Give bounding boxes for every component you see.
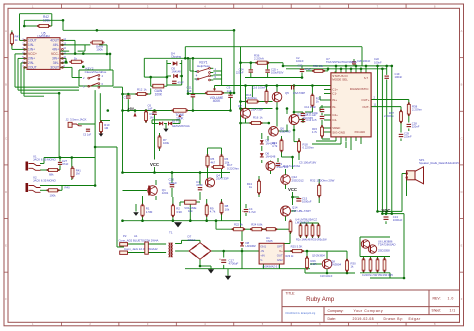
svg-text:IN-: IN- <box>332 105 336 109</box>
svg-text:100nF: 100nF <box>374 60 382 64</box>
svg-text:220nF: 220nF <box>236 71 244 75</box>
svg-text:VCC: VCC <box>381 208 390 213</box>
svg-text:C: C <box>461 136 463 140</box>
svg-text:MODE SEL: MODE SEL <box>332 77 348 81</box>
svg-text:R40: R40 <box>65 185 71 189</box>
svg-text:47uF: 47uF <box>196 183 203 187</box>
svg-text:C23: C23 <box>298 64 303 68</box>
svg-text:J2: J2 <box>66 117 69 121</box>
svg-text:1M: 1M <box>104 126 109 130</box>
svg-text:2W10: 2W10 <box>188 238 196 242</box>
svg-text:A1: A1 <box>134 234 138 238</box>
svg-text:C7: C7 <box>124 96 128 100</box>
svg-text:C16 100nF: C16 100nF <box>252 85 266 89</box>
svg-text:100k: 100k <box>96 48 103 52</box>
svg-text:VCC+: VCC+ <box>28 52 37 56</box>
svg-text:10k: 10k <box>225 207 230 211</box>
svg-text:220nF: 220nF <box>404 135 412 139</box>
svg-text:68k: 68k <box>49 172 54 176</box>
svg-text:-IN: -IN <box>260 249 264 253</box>
svg-text:2.2Ohm: 2.2Ohm <box>384 114 395 118</box>
svg-text:+: + <box>219 258 221 262</box>
svg-text:1.5M: 1.5M <box>146 210 153 214</box>
svg-text:C12 47uF: C12 47uF <box>304 105 316 109</box>
svg-text:Speaker_RevE_Date15Julio2015: Speaker_RevE_Date15Julio2015 <box>419 161 459 165</box>
svg-text:1uF: 1uF <box>187 89 192 93</box>
svg-text:2IN-: 2IN- <box>28 61 34 65</box>
svg-text:S-T: S-T <box>364 76 369 80</box>
svg-text:100K: 100K <box>155 93 163 97</box>
svg-text:1IN-: 1IN- <box>28 43 34 47</box>
svg-text:2SA733P: 2SA733P <box>216 177 229 181</box>
svg-text:GN1: GN1 <box>260 244 266 248</box>
svg-text:1M: 1M <box>76 171 81 175</box>
svg-text:+IN: +IN <box>260 254 265 258</box>
svg-text:V+: V+ <box>279 249 283 253</box>
svg-text:100k: 100k <box>163 141 170 145</box>
svg-text:Date:: Date: <box>328 317 336 321</box>
svg-text:3.5mm JACK: 3.5mm JACK <box>70 117 87 121</box>
svg-text:C5 100uF16V: C5 100uF16V <box>299 161 316 165</box>
svg-text:Q7: Q7 <box>238 104 242 108</box>
svg-text:4OUT: 4OUT <box>50 39 59 43</box>
svg-text:C13 1n5: C13 1n5 <box>306 118 317 122</box>
svg-text:TDA7297SA/TDA7266SA: TDA7297SA/TDA7266SA <box>326 60 357 64</box>
svg-text:REV:: REV: <box>433 297 441 301</box>
svg-text:100k: 100k <box>43 19 50 23</box>
svg-text:R32: R32 <box>310 178 316 182</box>
svg-text:3IN+: 3IN+ <box>52 57 59 61</box>
svg-text:U7: U7 <box>326 57 330 61</box>
svg-text:R24 6.8k: R24 6.8k <box>251 223 263 227</box>
svg-text:C2-: C2- <box>332 118 337 122</box>
svg-text:4k7: 4k7 <box>211 160 216 164</box>
svg-text:R2x 1N4148 R33 0R5c3W: R2x 1N4148 R33 0R5c3W <box>296 238 327 242</box>
svg-text:2IN+: 2IN+ <box>28 57 35 61</box>
svg-text:LM340MAZ-5.0: LM340MAZ-5.0 <box>262 266 280 269</box>
svg-text:VCC: VCC <box>288 187 297 192</box>
svg-text:Ruby Amp: Ruby Amp <box>306 296 335 303</box>
svg-text:2.2Ohm: 2.2Ohm <box>412 107 423 111</box>
svg-text:47nF: 47nF <box>62 162 69 166</box>
svg-text:1/1: 1/1 <box>450 309 456 313</box>
svg-text:E: E <box>5 244 7 248</box>
svg-text:3.9K: 3.9K <box>176 210 182 214</box>
svg-text:TITLE:: TITLE: <box>286 291 296 295</box>
svg-text:2OUT: 2OUT <box>28 66 37 70</box>
svg-text:0.22Ohm: 0.22Ohm <box>227 166 239 170</box>
svg-text:R25 5.3K: R25 5.3K <box>291 244 303 248</box>
svg-text:2SD400: 2SD400 <box>280 130 291 134</box>
svg-text:47nF: 47nF <box>178 81 184 85</box>
svg-text:0.22Ohm: 0.22Ohm <box>303 145 315 149</box>
svg-text:JACK 6.35 MONO: JACK 6.35 MONO <box>33 158 57 162</box>
svg-text:100nF: 100nF <box>395 75 403 79</box>
svg-text:LM336Z: LM336Z <box>246 244 257 248</box>
svg-text:2.2OhA: 2.2OhA <box>254 57 264 61</box>
svg-text:DIAGNOSTIC: DIAGNOSTIC <box>350 87 370 91</box>
svg-text:1nF: 1nF <box>227 89 232 93</box>
svg-text:D: D <box>5 190 7 194</box>
svg-text:LM324N: LM324N <box>37 34 50 38</box>
svg-text:A: A <box>461 29 463 33</box>
svg-text:Q5: Q5 <box>285 91 289 95</box>
svg-text:Conn_Jack 2A 3F 2W4A42: Conn_Jack 2A 3F 2W4A42 <box>124 247 158 251</box>
svg-text:J201: J201 <box>162 191 169 195</box>
svg-text:R16: R16 <box>253 116 259 120</box>
svg-text:C1-: C1- <box>332 92 337 96</box>
svg-text:C20 100nF: C20 100nF <box>357 59 371 63</box>
svg-text:P2: P2 <box>123 234 127 238</box>
svg-text:4IN-: 4IN- <box>53 43 59 47</box>
svg-text:1000uF: 1000uF <box>393 218 403 222</box>
svg-text:GN2: GN2 <box>277 258 283 262</box>
svg-text:OUT: OUT <box>277 254 283 258</box>
svg-text:3IN-: 3IN- <box>53 61 59 65</box>
svg-text:IN+: IN+ <box>332 98 337 102</box>
svg-text:Q9 2N3904: Q9 2N3904 <box>312 254 325 257</box>
svg-text:100K: 100K <box>176 117 184 121</box>
svg-text:Clipping: Clipping <box>171 55 182 59</box>
svg-text:D: D <box>461 190 463 194</box>
svg-text:V-: V- <box>260 258 263 262</box>
svg-text:2N3904: 2N3904 <box>331 263 342 267</box>
svg-text:0.22Ohm 5W 3W R33 0R5: 0.22Ohm 5W 3W R33 0R5 <box>362 273 393 277</box>
svg-text:OUT-: OUT- <box>362 105 369 109</box>
svg-text:4700uF: 4700uF <box>229 262 239 266</box>
svg-text:Conn_AD2 BLUETOOTH 2W4A: Conn_AD2 BLUETOOTH 2W4A <box>119 238 159 242</box>
svg-text:R35 10k: R35 10k <box>313 64 324 68</box>
svg-text:C3 1uF: C3 1uF <box>83 133 92 136</box>
svg-text:R12: R12 <box>137 88 143 92</box>
svg-text:C2+: C2+ <box>332 113 338 117</box>
svg-text:T1: T1 <box>169 230 173 234</box>
svg-text:1000uF: 1000uF <box>302 199 312 203</box>
svg-text:150Ohm: 150Ohm <box>246 96 258 100</box>
svg-text:10k: 10k <box>188 209 193 213</box>
svg-text:1IN+: 1IN+ <box>28 48 35 52</box>
svg-text:2SD2058: 2SD2058 <box>378 249 390 253</box>
svg-text:2019-02-08: 2019-02-08 <box>353 317 374 321</box>
svg-text:4.7k: 4.7k <box>272 144 278 148</box>
svg-text:2SA733P: 2SA733P <box>251 108 263 112</box>
svg-text:47uF: 47uF <box>305 67 311 71</box>
svg-text:100nF: 100nF <box>296 59 304 63</box>
svg-text:VCC-: VCC- <box>51 52 59 56</box>
svg-text:SIG-GND: SIG-GND <box>332 131 346 135</box>
svg-text:2-2R: 2-2R <box>311 262 317 266</box>
svg-text:C: C <box>5 136 7 140</box>
svg-text:Drawn By:: Drawn By: <box>384 317 404 321</box>
svg-text:OPT: OPT <box>277 244 283 248</box>
svg-text:1k: 1k <box>74 56 78 60</box>
svg-text:GESVMAT41A: GESVMAT41A <box>172 124 190 128</box>
svg-text:1N4148: 1N4148 <box>172 70 182 74</box>
svg-text:+5V: +5V <box>128 107 135 111</box>
svg-text:Clean/Overdrive: Clean/Overdrive <box>85 70 107 74</box>
svg-text:PW-GND: PW-GND <box>355 131 366 134</box>
svg-text:4IN+: 4IN+ <box>52 48 59 52</box>
svg-text:1k: 1k <box>15 38 19 42</box>
svg-text:1uF: 1uF <box>148 106 153 110</box>
svg-text:OUT+: OUT+ <box>361 98 369 102</box>
svg-text:Edgar: Edgar <box>409 317 422 321</box>
svg-text:3OUT: 3OUT <box>50 66 59 70</box>
svg-text:220nF: 220nF <box>412 125 420 129</box>
svg-text:TDA7266SAD: TDA7266SAD <box>378 243 396 247</box>
svg-text:Company:: Company: <box>328 309 344 313</box>
svg-text:KiCAD E.D.A. kicad-pcb.org: KiCAD E.D.A. kicad-pcb.org <box>286 312 316 315</box>
svg-text:1M: 1M <box>150 115 155 119</box>
svg-text:4.7uF: 4.7uF <box>249 210 256 214</box>
svg-text:R17 5.22OhA: R17 5.22OhA <box>283 164 300 168</box>
svg-text:150Ohm 20W: 150Ohm 20W <box>317 178 335 182</box>
svg-text:2SA733P: 2SA733P <box>293 91 305 95</box>
svg-text:4.7k: 4.7k <box>210 210 216 214</box>
svg-text:TIP-UBL-TA5T: TIP-UBL-TA5T <box>292 209 311 213</box>
svg-text:A: A <box>5 29 7 33</box>
svg-text:Your Company: Your Company <box>354 309 384 313</box>
svg-text:1N4148: 1N4148 <box>266 155 276 159</box>
svg-text:B: B <box>5 83 7 87</box>
svg-text:B: B <box>461 83 463 87</box>
svg-text:Sheet:: Sheet: <box>432 309 442 313</box>
svg-text:SP1: SP1 <box>419 158 425 162</box>
svg-text:R22 4k: R22 4k <box>234 223 243 227</box>
svg-text:2SD2012: 2SD2012 <box>292 178 304 182</box>
svg-text:+: + <box>242 210 244 214</box>
svg-text:R29 1k: R29 1k <box>286 255 295 258</box>
svg-text:E: E <box>461 244 463 248</box>
svg-text:7A05: 7A05 <box>266 239 273 243</box>
svg-text:C18 100nF: C18 100nF <box>320 275 333 278</box>
svg-text:100k: 100k <box>50 193 57 197</box>
svg-text:4.7k: 4.7k <box>312 130 318 134</box>
svg-text:400K: 400K <box>213 99 221 103</box>
svg-text:Help/Solo: Help/Solo <box>197 64 210 68</box>
svg-text:JACK 6.35 MONO: JACK 6.35 MONO <box>33 179 57 183</box>
svg-text:1OUT: 1OUT <box>28 39 37 43</box>
svg-text:VCC: VCC <box>150 162 159 167</box>
svg-text:LM7905CT: LM7905CT <box>295 220 309 224</box>
svg-text:100uF50V: 100uF50V <box>271 71 284 75</box>
svg-text:C15 0.1uF: C15 0.1uF <box>303 113 316 117</box>
svg-text:1.0: 1.0 <box>448 297 454 301</box>
